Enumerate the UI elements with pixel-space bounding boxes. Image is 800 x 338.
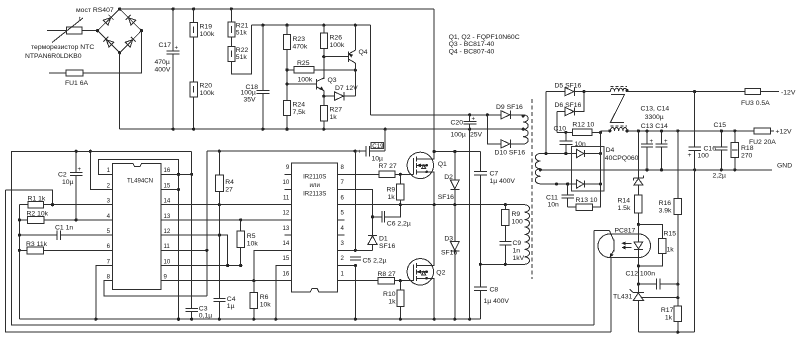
- resistor R27 1k: [320, 105, 342, 129]
- svg-text:R3 11k: R3 11k: [26, 241, 48, 248]
- svg-text:27: 27: [225, 187, 233, 194]
- transformer T1 aux winding: [522, 114, 529, 144]
- svg-text:R10: R10: [383, 291, 396, 298]
- svg-text:D4: D4: [606, 147, 615, 154]
- svg-text:+: +: [664, 138, 668, 145]
- resistor R13 10: [568, 184, 601, 210]
- diode D10 SF16: [495, 140, 526, 157]
- svg-text:1µ 400V: 1µ 400V: [490, 178, 516, 185]
- wire IR pin6 midpoint rail: [338, 204, 525, 206]
- svg-text:+: +: [175, 45, 179, 52]
- transistor Q2 FQPF10N60C: [407, 205, 445, 320]
- svg-text:D7 12V: D7 12V: [335, 85, 358, 92]
- svg-text:13: 13: [164, 213, 171, 220]
- svg-text:FU3 0.5A: FU3 0.5A: [741, 100, 770, 107]
- svg-text:+: +: [688, 152, 692, 159]
- svg-text:R7 27: R7 27: [379, 163, 397, 170]
- resistor R18 270: [731, 131, 754, 170]
- svg-text:10: 10: [283, 179, 290, 186]
- svg-text:15: 15: [164, 182, 171, 189]
- wire bridge bottom down: [119, 53, 121, 129]
- wire -12V rail to fuse: [627, 91, 745, 93]
- label C13,C14 3300u: [641, 106, 670, 131]
- svg-text:+: +: [358, 148, 362, 155]
- svg-text:D2: D2: [444, 174, 453, 181]
- svg-text:270: 270: [741, 153, 753, 160]
- svg-text:1k: 1k: [667, 246, 675, 253]
- svg-text:C3: C3: [199, 305, 208, 312]
- svg-text:C20: C20: [451, 120, 464, 127]
- svg-text:Q3 - BC817-40: Q3 - BC817-40: [449, 41, 495, 48]
- resistor R7 27: [338, 163, 408, 178]
- svg-text:FU1 6A: FU1 6A: [65, 80, 89, 87]
- svg-text:IR2110S: IR2110S: [303, 173, 326, 180]
- svg-text:R18: R18: [741, 145, 754, 152]
- resistor R1 1k: [19, 195, 52, 208]
- IC U2 IR2110S body: [283, 163, 345, 292]
- svg-text:R20: R20: [200, 83, 213, 90]
- svg-text:1k: 1k: [388, 194, 396, 201]
- optocoupler PC817: [594, 228, 650, 333]
- resistor R3 11k: [18, 241, 113, 254]
- transformer core: [531, 99, 533, 279]
- svg-text:13: 13: [283, 225, 290, 232]
- svg-text:терморезистор NTC: терморезистор NTC: [31, 44, 94, 51]
- transformer T1 primary winding: [525, 205, 530, 265]
- svg-text:11: 11: [283, 194, 290, 201]
- svg-text:C9: C9: [513, 240, 522, 247]
- wire Q4 base: [324, 56, 349, 58]
- info text transistors: [449, 34, 520, 55]
- svg-text:C11: C11: [546, 194, 558, 201]
- wire R22 bottom L-path to aux rail: [231, 25, 251, 74]
- wire ground stitch x470: [469, 129, 471, 319]
- wire pin14 to IR pin11: [161, 204, 292, 206]
- inductor L1 top (-12V choke): [610, 87, 628, 93]
- svg-text:C4: C4: [227, 296, 236, 303]
- svg-text:R12 10: R12 10: [572, 121, 594, 128]
- wire AC input L: [47, 30, 67, 32]
- svg-text:100k: 100k: [200, 90, 215, 97]
- svg-text:1kV: 1kV: [513, 255, 525, 262]
- node dot Q3 emitter / D7 anode: [322, 95, 325, 98]
- svg-text:100k: 100k: [200, 31, 215, 38]
- svg-text:16: 16: [164, 167, 171, 174]
- resistor R9 100 snubber: [502, 205, 523, 242]
- capacitor C8 1u 400V: [474, 287, 509, 320]
- zener D7 12V: [324, 85, 358, 100]
- node dot D10 branch: [486, 113, 489, 116]
- svg-text:470k: 470k: [293, 44, 308, 51]
- diode D3 SF16: [441, 205, 459, 320]
- wire IR pin14 from TL pin9 net: [254, 250, 292, 280]
- diode D5 SF16: [546, 83, 584, 96]
- wire IR pin7 to bootstrap: [338, 190, 373, 236]
- wire comp line to pin3: [6, 190, 53, 205]
- svg-text:10µ: 10µ: [372, 156, 384, 163]
- svg-text:R23: R23: [293, 36, 306, 43]
- resistor R14 1.5k: [618, 195, 643, 224]
- svg-text:R1 1k: R1 1k: [28, 195, 46, 202]
- svg-text:C8: C8: [490, 287, 499, 294]
- capacitor C14 3300u: [656, 131, 669, 170]
- wire aux supply line y114: [371, 114, 501, 116]
- svg-text:+12V: +12V: [776, 129, 793, 136]
- svg-text:100k: 100k: [298, 77, 313, 84]
- wire D4 cathode riser: [600, 131, 602, 184]
- capacitor C11 10n: [546, 184, 574, 209]
- svg-text:R14: R14: [618, 197, 631, 204]
- svg-text:R15: R15: [664, 231, 677, 238]
- svg-text:D3: D3: [444, 236, 453, 243]
- svg-text:14: 14: [164, 198, 171, 205]
- svg-text:10k: 10k: [247, 240, 259, 247]
- svg-text:R27: R27: [330, 107, 343, 114]
- diode D6 SF16: [555, 90, 586, 116]
- diode D4b: [540, 180, 602, 188]
- resistor R19 100k: [190, 9, 215, 82]
- wire TL431 anode return: [638, 331, 694, 333]
- capacitor C20 100u 25V: [451, 115, 483, 139]
- svg-text:R25: R25: [297, 60, 310, 67]
- resistor R25 100k: [287, 60, 355, 84]
- svg-text:R4: R4: [225, 179, 234, 186]
- svg-text:40CPQ060: 40CPQ060: [605, 155, 639, 162]
- svg-text:t: t: [79, 16, 81, 23]
- svg-text:D10 SF16: D10 SF16: [495, 150, 526, 157]
- wire feedback line1: [6, 190, 612, 332]
- transistor Q4 BC807: [349, 25, 368, 96]
- svg-text:R6: R6: [260, 294, 269, 301]
- svg-text:10: 10: [164, 258, 171, 265]
- svg-text:C10: C10: [554, 126, 567, 133]
- wire pin11 to Vcc riser: [161, 249, 207, 251]
- resistor R12 10: [557, 121, 602, 135]
- svg-text:C15: C15: [714, 122, 727, 129]
- inductor L1 bottom (+12V choke): [608, 126, 629, 133]
- svg-text:15: 15: [283, 255, 290, 262]
- capacitor C10 10n: [554, 126, 587, 154]
- svg-text:10n: 10n: [548, 202, 560, 209]
- svg-text:9: 9: [286, 164, 290, 171]
- wire pin10: [161, 265, 241, 267]
- wire pin12 jog: [161, 235, 228, 265]
- resistor R10 1k: [383, 281, 404, 320]
- wire -12V rail: [584, 91, 610, 93]
- svg-text:25V: 25V: [470, 132, 483, 139]
- wire Vcc lineB: [207, 150, 366, 152]
- wire Vcc riser x206.9: [206, 151, 208, 296]
- bridge rectifier RS407: [76, 7, 143, 54]
- resistor R17 1k: [661, 306, 682, 332]
- node dots primary ground rail: [172, 128, 175, 131]
- svg-text:C2: C2: [58, 172, 67, 179]
- svg-text:R13 10: R13 10: [576, 197, 598, 204]
- resistor R21 51k: [228, 9, 249, 37]
- node dots ground rail: [94, 318, 97, 321]
- resistor R4 27: [215, 150, 234, 299]
- svg-text:Q4: Q4: [359, 49, 368, 56]
- svg-text:7,5k: 7,5k: [293, 109, 306, 116]
- svg-text:R22: R22: [236, 47, 249, 54]
- wire +310V drop to Q1 drain: [433, 9, 435, 152]
- resistor R6 10k: [250, 281, 271, 320]
- capacitor C15 2.2u: [713, 122, 728, 179]
- capacitor C12 100n: [626, 271, 680, 290]
- svg-text:C17: C17: [159, 42, 172, 49]
- transformer T1 secondary winding: [535, 154, 540, 184]
- svg-text:100: 100: [698, 152, 710, 159]
- svg-text:12: 12: [283, 210, 290, 217]
- capacitor C2 10u: [58, 150, 83, 220]
- svg-text:NTPAN6R0LDKB0: NTPAN6R0LDKB0: [25, 53, 82, 60]
- wire IR pin3 Vcc: [338, 249, 373, 251]
- zener D8 on R14 branch: [633, 131, 643, 195]
- svg-text:SF16: SF16: [379, 243, 395, 250]
- svg-text:R16: R16: [659, 200, 672, 207]
- resistor R5 10k: [237, 220, 259, 266]
- capacitor C18 100u 35V: [241, 24, 270, 130]
- node dots midpoint rail: [433, 203, 436, 206]
- svg-text:R8 27: R8 27: [378, 271, 396, 278]
- svg-text:R17: R17: [661, 307, 674, 314]
- IC U1 TL494CN body: [107, 163, 171, 289]
- wire IR pin15 to ground: [276, 266, 292, 320]
- svg-text:+: +: [472, 116, 476, 123]
- wire feedback lineA: [12, 151, 595, 325]
- svg-text:10µ: 10µ: [62, 179, 74, 186]
- resistor R26 100k: [320, 25, 345, 79]
- svg-text:400V: 400V: [155, 67, 171, 74]
- wire Q3 collector/emitter column: [323, 91, 325, 106]
- svg-text:R9: R9: [512, 211, 521, 218]
- fuse FU3 0.5A: [741, 89, 779, 107]
- wire pin2 riser: [90, 151, 112, 189]
- capacitor C1 1n: [18, 224, 113, 239]
- node dot C20 top: [468, 113, 471, 116]
- svg-text:1k: 1k: [388, 299, 396, 306]
- node dots +12V rail: [637, 129, 640, 132]
- node dot R26/Q4 base column: [322, 55, 325, 58]
- svg-text:100µ: 100µ: [241, 90, 256, 97]
- svg-text:35V: 35V: [244, 97, 257, 104]
- node dots ground rail right: [433, 318, 436, 321]
- svg-text:C12 100n: C12 100n: [626, 271, 656, 278]
- svg-text:11: 11: [164, 243, 171, 250]
- wire Vcc riser to pin3: [354, 151, 356, 250]
- svg-text:100: 100: [512, 219, 524, 226]
- wire drain node row: [434, 151, 480, 153]
- shunt regulator TL431: [613, 266, 679, 332]
- svg-text:1k: 1k: [330, 114, 338, 121]
- fuse FU2 20A: [749, 128, 776, 146]
- svg-text:1µ 400V: 1µ 400V: [484, 298, 510, 305]
- resistor R16 3.9k: [659, 131, 682, 306]
- svg-text:TL494CN: TL494CN: [127, 177, 153, 184]
- svg-text:-12V: -12V: [781, 89, 796, 96]
- svg-text:1.5k: 1.5k: [618, 205, 631, 212]
- capacitor C4 1u: [214, 296, 236, 319]
- wire ground stitch x178.5: [178, 174, 180, 319]
- capacitor C3 0.1u: [186, 151, 213, 319]
- svg-text:R2 10k: R2 10k: [27, 210, 49, 217]
- svg-text:Q1, Q2 - FQPF10N60C: Q1, Q2 - FQPF10N60C: [449, 34, 520, 41]
- svg-text:C19: C19: [372, 143, 384, 150]
- wire aux bias rail y25: [252, 24, 371, 26]
- wire GND riser down to TL431 return: [694, 170, 696, 332]
- LED of PC817: [634, 224, 643, 267]
- svg-text:D6 SF16: D6 SF16: [555, 102, 582, 109]
- svg-text:0,1µ: 0,1µ: [199, 312, 212, 319]
- node dot R23/R25: [285, 68, 288, 71]
- svg-text:C7: C7: [490, 170, 499, 177]
- wire IR pin4 stub: [338, 234, 345, 236]
- svg-text:R26: R26: [330, 35, 343, 42]
- svg-text:мост RS407: мост RS407: [76, 7, 114, 14]
- svg-text:R21: R21: [236, 23, 249, 30]
- node dots top rail: [172, 7, 175, 10]
- wire secondary top row: [540, 153, 576, 155]
- wire pin13 to IR pin12: [161, 219, 292, 221]
- wire D6 snubber corner: [556, 112, 558, 133]
- wire IR pin5 stub: [338, 219, 345, 221]
- svg-text:D9 SF16: D9 SF16: [496, 104, 523, 111]
- svg-text:C6 2,2µ: C6 2,2µ: [387, 221, 411, 228]
- wire pin15: [161, 189, 178, 191]
- resistor R9 1k: [387, 174, 405, 204]
- capacitor C17 470u 400V: [155, 9, 180, 129]
- svg-text:SF16: SF16: [441, 249, 457, 256]
- svg-text:51k: 51k: [236, 30, 248, 37]
- rectifier D4 40CPQ060 package: [571, 146, 604, 191]
- svg-text:SF16: SF16: [438, 194, 454, 201]
- diode D1 SF16 bootstrap: [368, 235, 395, 250]
- svg-text:D5 SF16: D5 SF16: [555, 83, 582, 90]
- svg-text:10k: 10k: [260, 301, 272, 308]
- diode D4a: [577, 149, 603, 157]
- svg-text:1µ: 1µ: [227, 303, 235, 310]
- svg-text:C14: C14: [655, 123, 668, 130]
- svg-text:Q1: Q1: [438, 161, 447, 168]
- svg-text:100k: 100k: [330, 42, 345, 49]
- svg-text:R9: R9: [387, 186, 396, 193]
- wire pin1 loop over IC to pin16: [98, 159, 178, 174]
- thermistor NTC NTPAN6R0LDKB0: [25, 16, 94, 60]
- wire +12V rail: [601, 130, 611, 132]
- transistor Q1 FQPF10N60C: [407, 152, 447, 205]
- node dot R25/Q4 collector: [354, 69, 357, 72]
- wire primary ground rail: [120, 128, 524, 130]
- capacitor C5 2.2u: [350, 257, 386, 264]
- svg-text:16: 16: [283, 270, 290, 277]
- wire bridge right to fuse: [83, 31, 142, 73]
- svg-text:C13, C14: C13, C14: [641, 106, 670, 113]
- svg-text:2,2µ: 2,2µ: [713, 172, 726, 179]
- wire pin3: [53, 204, 113, 206]
- wire GND rail: [540, 169, 772, 171]
- capacitor C19 10u: [358, 129, 385, 162]
- resistor R23 470k: [284, 25, 308, 100]
- wire pin7 to ground rail: [96, 266, 113, 320]
- svg-text:12: 12: [164, 228, 171, 235]
- diode D9 SF16: [496, 104, 523, 119]
- transistor Q3 BC817: [285, 77, 336, 91]
- wire D10 branch: [487, 115, 501, 144]
- resistor R8 27: [338, 271, 410, 284]
- resistor R22 51k: [228, 37, 249, 61]
- svg-text:Q4 - BC807-40: Q4 - BC807-40: [449, 48, 495, 55]
- wire: [82, 30, 98, 32]
- wire IR pin10 stub: [285, 189, 292, 191]
- capacitor C13 3300u: [641, 131, 654, 170]
- capacitor C9 1n 1kV: [499, 240, 524, 266]
- svg-text:R5: R5: [247, 233, 256, 240]
- wire D5 riser: [545, 92, 547, 154]
- svg-text:51k: 51k: [236, 54, 248, 61]
- wire pin16: [161, 173, 191, 175]
- svg-text:3300µ: 3300µ: [645, 114, 664, 121]
- svg-text:14: 14: [283, 240, 290, 247]
- svg-text:100µ: 100µ: [451, 132, 466, 139]
- wire IR pin2 to ground: [338, 265, 356, 267]
- resistor R2 10k: [18, 210, 113, 223]
- svg-text:D1: D1: [379, 236, 388, 243]
- wire pin9 to IR pin16: [161, 280, 292, 282]
- svg-text:C5 2,2µ: C5 2,2µ: [363, 257, 387, 264]
- coupling mark Z: [611, 95, 625, 123]
- svg-text:IR2113S: IR2113S: [303, 190, 326, 197]
- resistor R15 1k: [638, 224, 676, 266]
- svg-text:Q3: Q3: [328, 77, 337, 84]
- svg-text:R19: R19: [200, 24, 213, 31]
- diode D2 SF16: [438, 152, 460, 205]
- svg-text:GND: GND: [777, 162, 792, 169]
- svg-text:R24: R24: [293, 102, 306, 109]
- wire pin8 under-IC path: [104, 281, 207, 297]
- svg-text:TL431: TL431: [613, 293, 632, 300]
- svg-text:1n: 1n: [513, 248, 521, 255]
- fuse FU1 6A: [49, 70, 89, 87]
- resistor R24 7.5k: [284, 100, 306, 129]
- svg-text:C1 1n: C1 1n: [55, 224, 73, 231]
- wire primary bottom return: [480, 263, 524, 265]
- wire +310V top rail: [120, 8, 435, 10]
- svg-text:PC817: PC817: [615, 228, 636, 235]
- wire main ground rail y319: [19, 318, 480, 320]
- resistor R20 100k: [190, 82, 215, 129]
- wire riser to aux supply line: [370, 25, 372, 115]
- svg-text:C13: C13: [641, 123, 654, 130]
- wire IR pin9 stub: [285, 173, 292, 175]
- wire PC817 collector riser: [593, 231, 595, 326]
- svg-text:1k: 1k: [665, 315, 673, 322]
- svg-text:+: +: [650, 138, 654, 145]
- node dots aux bias rail: [285, 24, 288, 27]
- svg-text:или: или: [310, 182, 320, 189]
- capacitor C6 2.2u: [371, 205, 411, 228]
- svg-text:+: +: [78, 166, 82, 173]
- svg-text:Q2: Q2: [436, 270, 445, 277]
- svg-text:470µ: 470µ: [155, 59, 170, 66]
- wire left ground stitch x19.4: [18, 205, 20, 320]
- capacitor C7 1u 400V: [474, 152, 515, 288]
- capacitor C16 100: [688, 92, 717, 170]
- svg-text:3.9k: 3.9k: [659, 207, 672, 214]
- wire IR pin13 stub: [285, 234, 292, 236]
